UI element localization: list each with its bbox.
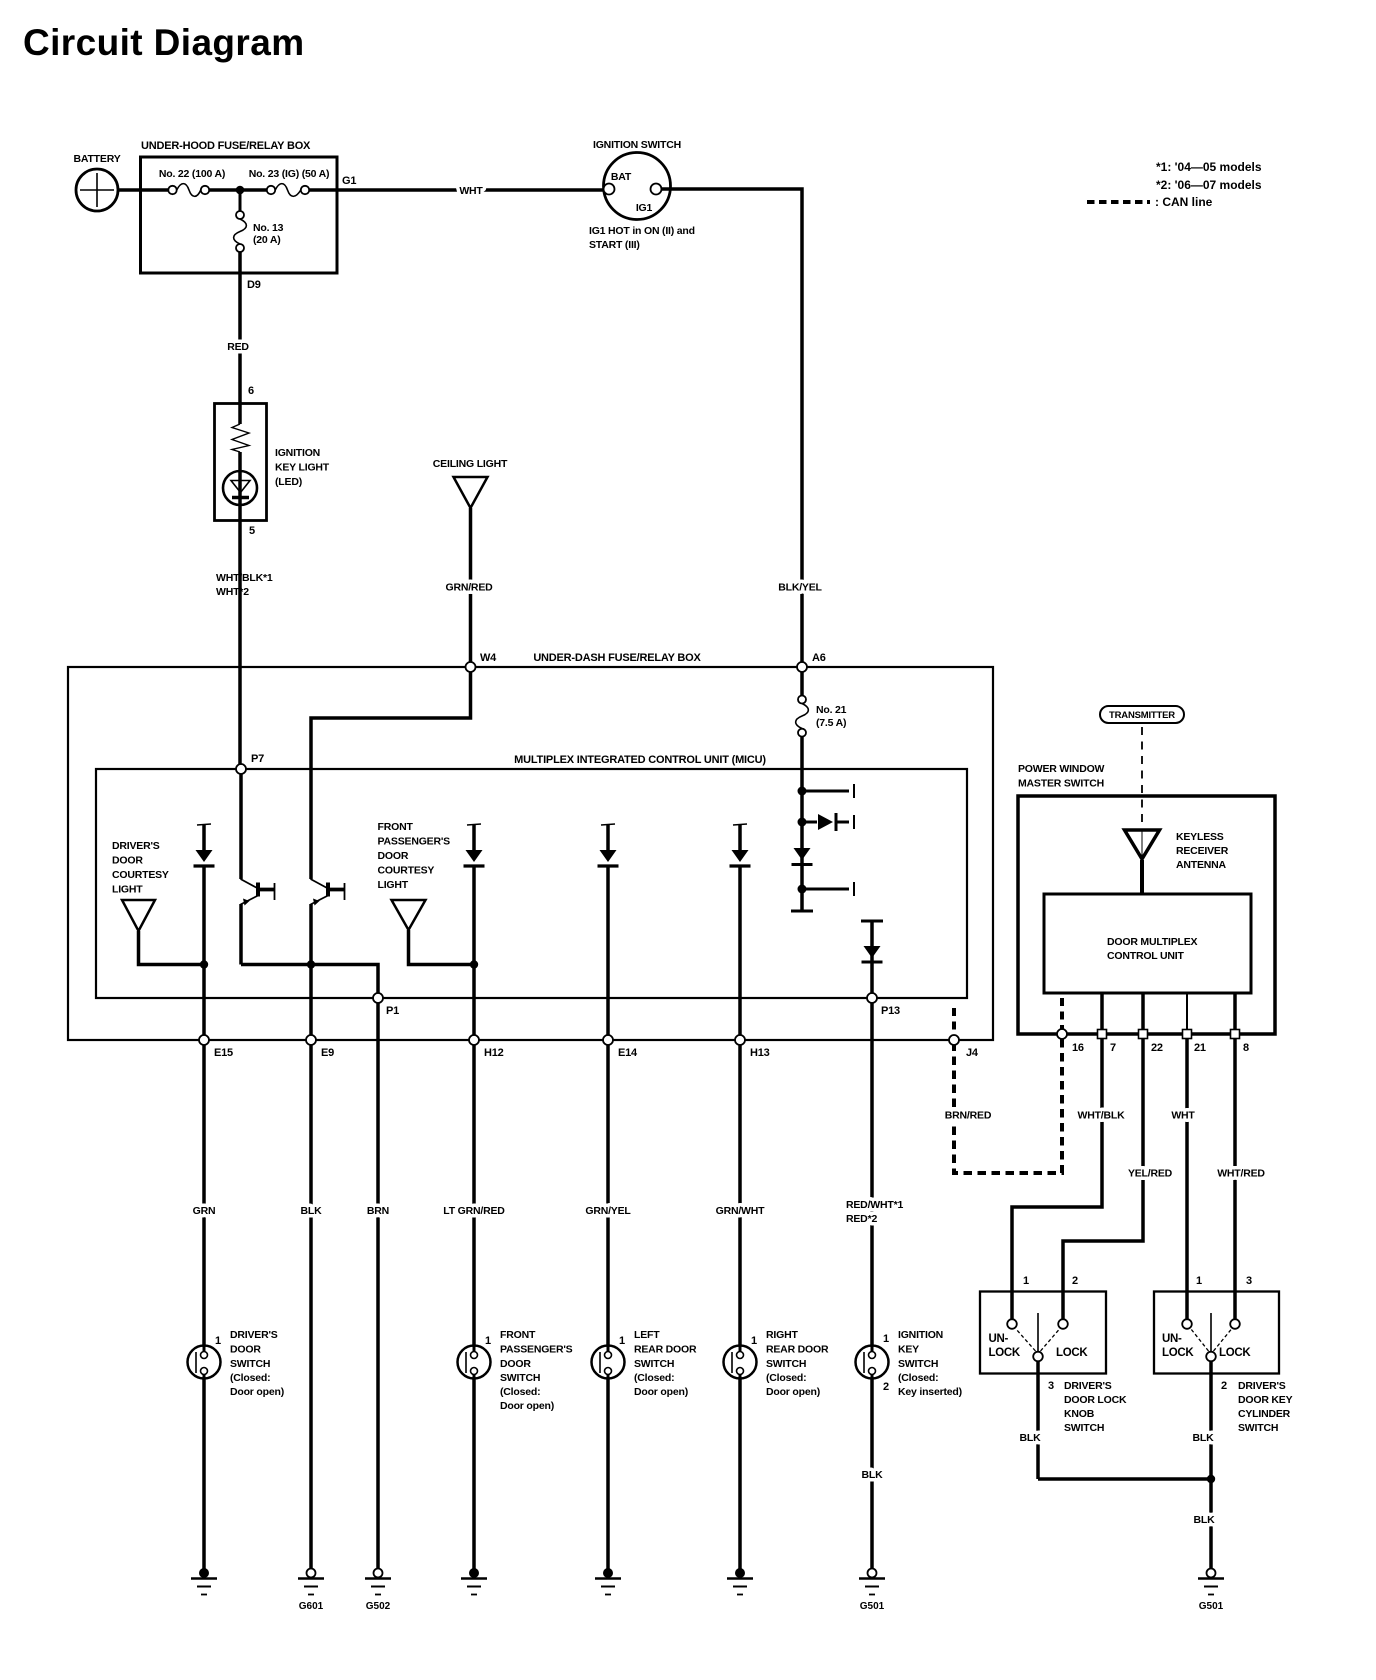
svg-text:H13: H13 [750,1047,770,1059]
svg-text:A6: A6 [812,652,826,664]
svg-text:Door open): Door open) [634,1386,688,1398]
svg-text:BLK: BLK [301,1205,323,1217]
svg-text:1: 1 [751,1335,757,1347]
svg-text:CONTROL UNIT: CONTROL UNIT [1107,950,1185,962]
svg-text:GRN/YEL: GRN/YEL [585,1205,631,1217]
svg-text:RED: RED [227,341,249,353]
svg-text:No. 13: No. 13 [253,222,284,234]
svg-text:BLK: BLK [1194,1514,1216,1526]
svg-text:E9: E9 [321,1047,334,1059]
svg-text:MULTIPLEX INTEGRATED CONTROL U: MULTIPLEX INTEGRATED CONTROL UNIT (MICU) [514,754,766,766]
svg-text:1: 1 [619,1335,625,1347]
svg-text:RECEIVER: RECEIVER [1176,845,1229,857]
svg-text:21: 21 [1194,1042,1206,1054]
svg-text:TRANSMITTER: TRANSMITTER [1109,710,1175,721]
svg-text:SWITCH: SWITCH [230,1358,270,1370]
svg-text:IGNITION: IGNITION [275,447,320,459]
svg-text:Door open): Door open) [766,1386,820,1398]
svg-text:Door open): Door open) [500,1400,554,1412]
svg-text:*2: '06—07 models: *2: '06—07 models [1156,178,1262,192]
svg-text:(7.5 A): (7.5 A) [816,717,846,729]
svg-text:P1: P1 [386,1005,399,1017]
svg-text:UN-: UN- [989,1333,1009,1345]
svg-text:1: 1 [883,1333,889,1345]
svg-text:GRN/WHT: GRN/WHT [716,1205,766,1217]
svg-text:WHT: WHT [459,185,483,197]
svg-text:7: 7 [1110,1042,1116,1054]
svg-text:IGNITION: IGNITION [898,1329,943,1341]
svg-text:REAR DOOR: REAR DOOR [634,1344,697,1356]
svg-text:1: 1 [1196,1275,1202,1287]
svg-text:WHT/RED: WHT/RED [1217,1168,1265,1180]
svg-text:3: 3 [1048,1380,1054,1392]
svg-text:Key inserted): Key inserted) [898,1386,962,1398]
svg-text:(Closed:: (Closed: [500,1386,540,1398]
svg-text:CEILING LIGHT: CEILING LIGHT [433,458,508,470]
svg-text:RIGHT: RIGHT [766,1329,798,1341]
svg-text:BAT: BAT [611,171,632,183]
svg-text:DOOR: DOOR [230,1344,261,1356]
svg-text:SWITCH: SWITCH [1064,1422,1104,1434]
svg-text:POWER WINDOW: POWER WINDOW [1018,763,1105,775]
svg-text:KEYLESS: KEYLESS [1176,831,1224,843]
svg-text:H12: H12 [484,1047,504,1059]
svg-text:J4: J4 [966,1047,979,1059]
svg-text:8: 8 [1243,1042,1249,1054]
svg-text:ANTENNA: ANTENNA [1176,859,1227,871]
svg-text:No. 22 (100 A): No. 22 (100 A) [159,168,225,180]
svg-text:LOCK: LOCK [989,1347,1021,1359]
svg-text:BRN/RED: BRN/RED [945,1110,992,1122]
svg-text:START (III): START (III) [589,239,640,251]
svg-text:W4: W4 [480,652,497,664]
svg-text:3: 3 [1246,1275,1252,1287]
svg-text:G502: G502 [366,1601,391,1612]
svg-text:LIGHT: LIGHT [112,884,143,896]
svg-text:BLK/YEL: BLK/YEL [778,582,822,594]
svg-text:Circuit Diagram: Circuit Diagram [23,22,305,63]
svg-text:1: 1 [215,1335,221,1347]
svg-text:DRIVER'S: DRIVER'S [1064,1380,1112,1392]
svg-text:BRN: BRN [367,1205,389,1217]
svg-text:BLK: BLK [1020,1432,1042,1444]
svg-text:LEFT: LEFT [634,1329,660,1341]
svg-text:(LED): (LED) [275,476,302,488]
svg-text:(Closed:: (Closed: [634,1372,674,1384]
svg-text:DRIVER'S: DRIVER'S [230,1329,278,1341]
svg-text:DOOR LOCK: DOOR LOCK [1064,1394,1127,1406]
svg-text:UN-: UN- [1162,1333,1182,1345]
svg-text:YEL/RED: YEL/RED [1128,1168,1173,1180]
svg-text:2: 2 [1221,1380,1227,1392]
svg-text:E14: E14 [618,1047,638,1059]
svg-text:BLK: BLK [1193,1432,1215,1444]
svg-text:6: 6 [248,385,254,397]
svg-text:GRN/RED: GRN/RED [445,582,493,594]
svg-text:22: 22 [1151,1042,1163,1054]
svg-text:WHT/BLK: WHT/BLK [1077,1110,1125,1122]
svg-text:DOOR: DOOR [500,1358,531,1370]
svg-text:DOOR: DOOR [378,850,409,862]
svg-text:2: 2 [883,1381,889,1393]
svg-text:P7: P7 [251,753,264,765]
svg-text:No. 23 (IG) (50 A): No. 23 (IG) (50 A) [249,168,330,180]
svg-text:1: 1 [485,1335,491,1347]
svg-text:(20 A): (20 A) [253,234,281,246]
svg-text:UNDER-HOOD FUSE/RELAY BOX: UNDER-HOOD FUSE/RELAY BOX [141,140,311,152]
svg-text:WHT/BLK*1: WHT/BLK*1 [216,572,273,584]
svg-text:LOCK: LOCK [1056,1347,1088,1359]
svg-text:5: 5 [249,525,255,537]
svg-text:DOOR: DOOR [112,855,143,867]
svg-text:WHT*2: WHT*2 [216,586,249,598]
svg-text:: CAN line: : CAN line [1155,195,1213,209]
svg-text:COURTESY: COURTESY [378,865,435,877]
svg-text:LT GRN/RED: LT GRN/RED [443,1205,505,1217]
svg-text:COURTESY: COURTESY [112,869,169,881]
svg-text:IG1: IG1 [636,202,653,214]
svg-text:P13: P13 [881,1005,900,1017]
svg-text:UNDER-DASH FUSE/RELAY BOX: UNDER-DASH FUSE/RELAY BOX [533,652,701,664]
svg-text:RED*2: RED*2 [846,1213,877,1225]
svg-text:IG1 HOT in ON (II) and: IG1 HOT in ON (II) and [589,225,695,237]
svg-text:LIGHT: LIGHT [378,879,409,891]
svg-text:G1: G1 [342,175,356,187]
svg-text:DRIVER'S: DRIVER'S [1238,1380,1286,1392]
svg-text:BLK: BLK [862,1469,884,1481]
svg-text:E15: E15 [214,1047,233,1059]
svg-text:(Closed:: (Closed: [898,1372,938,1384]
svg-text:PASSENGER'S: PASSENGER'S [500,1344,573,1356]
svg-text:FRONT: FRONT [378,821,414,833]
svg-text:FRONT: FRONT [500,1329,536,1341]
svg-text:SWITCH: SWITCH [1238,1422,1278,1434]
svg-text:SWITCH: SWITCH [766,1358,806,1370]
svg-text:G501: G501 [1199,1601,1224,1612]
svg-text:LOCK: LOCK [1162,1347,1194,1359]
svg-text:SWITCH: SWITCH [898,1358,938,1370]
svg-text:*1: '04—05 models: *1: '04—05 models [1156,160,1262,174]
svg-text:MASTER SWITCH: MASTER SWITCH [1018,778,1104,790]
svg-text:LOCK: LOCK [1219,1347,1251,1359]
svg-text:IGNITION SWITCH: IGNITION SWITCH [593,139,681,151]
svg-text:CYLINDER: CYLINDER [1238,1408,1291,1420]
svg-text:(Closed:: (Closed: [230,1372,270,1384]
svg-text:KEY: KEY [898,1344,919,1356]
svg-text:D9: D9 [247,279,261,291]
svg-text:KNOB: KNOB [1064,1408,1095,1420]
svg-text:2: 2 [1072,1275,1078,1287]
svg-text:REAR DOOR: REAR DOOR [766,1344,829,1356]
svg-text:WHT: WHT [1171,1110,1195,1122]
svg-text:DOOR MULTIPLEX: DOOR MULTIPLEX [1107,936,1198,948]
svg-text:GRN: GRN [193,1205,216,1217]
svg-text:No. 21: No. 21 [816,704,847,716]
svg-text:G501: G501 [860,1601,885,1612]
svg-text:(Closed:: (Closed: [766,1372,806,1384]
svg-text:PASSENGER'S: PASSENGER'S [378,836,451,848]
svg-text:Door open): Door open) [230,1386,284,1398]
svg-text:SWITCH: SWITCH [500,1372,540,1384]
svg-text:RED/WHT*1: RED/WHT*1 [846,1199,903,1211]
svg-text:SWITCH: SWITCH [634,1358,674,1370]
svg-text:BATTERY: BATTERY [73,153,120,165]
svg-text:KEY LIGHT: KEY LIGHT [275,462,330,474]
svg-text:G601: G601 [299,1601,324,1612]
svg-text:16: 16 [1072,1042,1084,1054]
svg-text:DOOR KEY: DOOR KEY [1238,1394,1293,1406]
svg-text:1: 1 [1023,1275,1029,1287]
svg-text:DRIVER'S: DRIVER'S [112,840,160,852]
